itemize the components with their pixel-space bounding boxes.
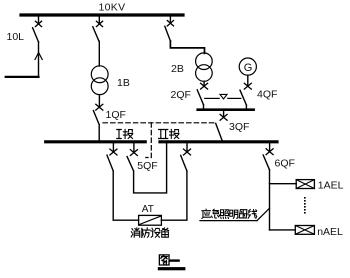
continuation dots — [304, 197, 306, 214]
wire transformer 1B secondary — [98, 95, 100, 108]
leader line to emergency lighting bus — [257, 208, 269, 220]
figure label underline — [158, 267, 186, 270]
svg-text:4QF: 4QF — [257, 88, 277, 100]
wire bus tie 5QF drop — [133, 143, 135, 152]
svg-text:G: G — [244, 62, 253, 74]
breaker feeder-I blade — [107, 155, 113, 171]
wire generator lead — [247, 75, 249, 86]
breaker 6QF drawout contact (x mark) — [266, 149, 273, 155]
breaker 2QF blade — [197, 90, 203, 105]
breaker 10L blade — [33, 28, 39, 42]
label yingji zhaoming muxian (emergency lighting bus) — [202, 209, 257, 218]
bus section II busbar — [160, 140, 277, 143]
wire feeder-I down and right to ATS — [113, 171, 138, 220]
breaker feeder-II drawout contact (x mark) — [184, 149, 191, 155]
breaker 2QF drawout contact (x mark) — [201, 83, 208, 89]
svg-text:1QF: 1QF — [106, 109, 126, 121]
breaker above 2B blade — [165, 26, 171, 41]
mechanical interlock link 2QF-4QF — [205, 97, 219, 99]
wire 2B branch drop from bus — [169, 17, 171, 24]
breaker 4QF drawout contact (x mark) — [244, 83, 251, 89]
wire 3QF drop — [223, 111, 225, 117]
bus section I busbar — [46, 140, 146, 143]
svg-text:5QF: 5QF — [137, 160, 157, 172]
interlock triangle symbol — [220, 94, 227, 99]
breaker 6QF blade — [263, 155, 269, 170]
breaker 4QF blade — [240, 90, 246, 105]
yi (one) stroke — [170, 259, 179, 261]
svg-text:10L: 10L — [7, 31, 25, 43]
breaker above 2B drawout contact (x mark) — [167, 21, 173, 26]
wire 1QF to section I bus — [98, 125, 100, 141]
arrow direction of supply on 10L — [35, 53, 42, 60]
label xiaofang shebei (fire-fighting equipment) — [131, 228, 168, 238]
ATS automatic transfer switch AT box — [139, 215, 162, 225]
wire 10L drop from bus — [38, 17, 40, 24]
breaker feeder-II blade — [181, 155, 187, 171]
wire 5QF tie loop to section II — [134, 143, 167, 193]
svg-text:10KV: 10KV — [99, 2, 126, 14]
svg-text:1B: 1B — [117, 77, 130, 89]
breaker 1QF blade — [93, 111, 99, 125]
distribution box nAEL — [295, 226, 314, 235]
interlock dashed line 1QF to 3QF — [103, 122, 215, 124]
breaker 3QF drawout contact (x mark) — [220, 114, 227, 120]
svg-text:1AEL: 1AEL — [318, 180, 344, 192]
transformer 1B — [91, 66, 108, 83]
wire branch to nAEL — [270, 229, 296, 231]
wire branch to 1AEL — [270, 183, 297, 185]
wire 4QF to changeover bus — [245, 105, 247, 109]
wire emergency lighting bus vertical — [269, 170, 271, 230]
underline of emergency lighting bus label — [200, 220, 257, 222]
wire transformer 2B secondary — [203, 81, 205, 86]
svg-text:AT: AT — [142, 204, 154, 215]
transformer 2B — [196, 53, 213, 70]
label tu yi (figure 1) — [159, 255, 178, 265]
breaker above 1B drawout contact (x mark) — [96, 21, 102, 26]
label I duan (section I) — [117, 129, 133, 138]
breaker 10L drawout contact (x mark) — [35, 21, 41, 26]
wire 2QF to changeover bus — [203, 105, 205, 109]
wire section I feeder to ATS drop — [112, 143, 114, 152]
breaker 1QF drawout contact (x mark) — [96, 104, 103, 110]
ATS diagonal — [140, 216, 161, 224]
wire jog to transformer 2B — [170, 41, 204, 53]
svg-text:6QF: 6QF — [275, 158, 295, 170]
generator G — [239, 58, 256, 75]
wire 6QF drop — [269, 143, 271, 151]
breaker 3QF blade — [216, 123, 223, 141]
wire section II feeder to ATS drop — [186, 143, 188, 152]
breaker 5QF drawout contact (x mark) — [130, 150, 137, 156]
svg-text:3QF: 3QF — [229, 121, 249, 133]
wire 10L vertical — [38, 42, 40, 77]
wire 1B drop from bus — [98, 17, 100, 24]
interlock dashed branch to 5QF — [146, 123, 152, 158]
bus 10kV main busbar — [21, 13, 183, 16]
wire to transformer 1B — [98, 41, 100, 66]
breaker 5QF blade — [127, 157, 134, 171]
breaker feeder-I drawout contact (x mark) — [110, 149, 117, 155]
label II duan (section II) — [159, 129, 179, 138]
svg-text:nAEL: nAEL — [317, 226, 343, 238]
distribution box 1AEL — [296, 180, 314, 189]
node changeover busbar (2QF/4QF to 3QF) — [198, 108, 254, 111]
svg-text:2QF: 2QF — [171, 89, 191, 101]
breaker above 1B blade — [93, 27, 99, 42]
svg-text:2B: 2B — [171, 63, 184, 75]
wire 10L foot to source — [6, 76, 39, 78]
wire feeder-II down and left to ATS — [161, 171, 187, 220]
